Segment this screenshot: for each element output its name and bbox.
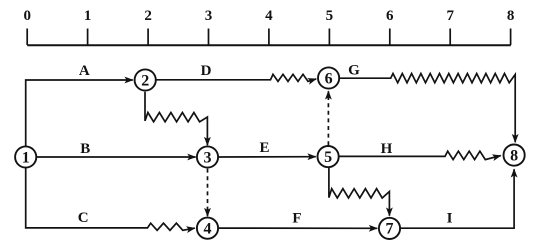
node 7	[379, 218, 400, 239]
activity B arrow 1-3	[36, 156, 195, 158]
svg-text:I: I	[447, 210, 453, 226]
svg-text:1: 1	[22, 149, 30, 166]
svg-text:F: F	[292, 210, 301, 226]
svg-text:3: 3	[204, 149, 212, 166]
svg-text:E: E	[259, 140, 269, 156]
svg-text:8: 8	[510, 147, 518, 164]
dummy arrow 3-4 (dashed)	[207, 169, 209, 209]
svg-text:2: 2	[144, 8, 152, 24]
slack squiggle 5-7	[329, 168, 390, 216]
svg-text:H: H	[381, 141, 393, 157]
svg-text:2: 2	[141, 72, 149, 89]
activity E arrow 3-5	[218, 156, 315, 158]
svg-text:7: 7	[446, 8, 454, 24]
svg-text:8: 8	[507, 8, 515, 24]
svg-text:D: D	[201, 63, 212, 79]
svg-text:6: 6	[325, 70, 333, 87]
svg-text:C: C	[78, 210, 89, 226]
svg-text:0: 0	[23, 8, 31, 24]
activity I arrow 7-8	[400, 169, 514, 228]
svg-text:A: A	[79, 63, 90, 79]
node 8	[503, 145, 524, 166]
svg-text:G: G	[348, 63, 360, 79]
svg-text:1: 1	[84, 8, 92, 24]
activity C arrow 1-4 with slack zigzag	[26, 168, 195, 231]
svg-text:3: 3	[205, 8, 213, 24]
node 6	[318, 67, 339, 88]
activity H arrow 5-8 with slack zigzag	[339, 151, 501, 159]
slack squiggle 2-3	[145, 92, 207, 145]
svg-text:4: 4	[265, 8, 273, 24]
node 5	[318, 146, 339, 167]
node 1	[15, 146, 36, 167]
node 4	[197, 218, 218, 239]
time scale ticks	[27, 29, 510, 46]
svg-text:6: 6	[386, 8, 394, 24]
node 2	[135, 69, 156, 90]
activity A arrow 1-2	[26, 80, 133, 146]
svg-text:5: 5	[324, 149, 332, 166]
node 3	[197, 146, 218, 167]
svg-text:5: 5	[326, 8, 334, 24]
time scale baseline	[27, 44, 511, 46]
activity D arrow 2-6 with slack zigzag	[156, 74, 316, 81]
dummy arrow 5-6 (dashed)	[327, 100, 329, 146]
svg-text:7: 7	[386, 221, 394, 238]
svg-text:B: B	[80, 141, 90, 157]
activity F arrow 4-7	[218, 227, 377, 229]
svg-text:4: 4	[204, 221, 212, 238]
activity G arrow 6-8 with long slack zigzag	[339, 74, 515, 143]
